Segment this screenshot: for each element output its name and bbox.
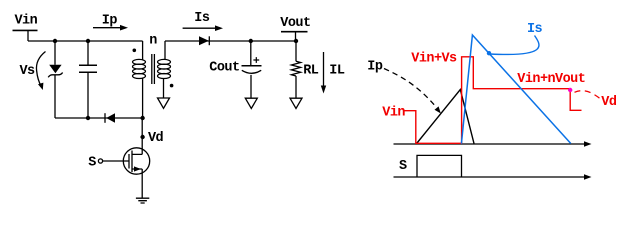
capacitor Cout curved plate bbox=[242, 70, 261, 73]
node Vd label bbox=[148, 131, 164, 146]
svg-text:Cout: Cout bbox=[209, 61, 239, 76]
transformer T1 secondary bottom stub bbox=[163, 79, 165, 99]
capacitor Cout bottom lead bbox=[250, 75, 252, 98]
label Vin+nVout red bbox=[517, 72, 585, 87]
ground Cout bbox=[245, 98, 257, 108]
resistor RL zigzag bbox=[291, 61, 300, 76]
capacitor C1 top lead bbox=[87, 41, 89, 65]
ground secondary bbox=[158, 98, 170, 108]
axis time lower bbox=[394, 176, 586, 178]
current arrow Is bbox=[183, 27, 216, 29]
transformer T1 primary bottom stub bbox=[142, 79, 144, 119]
svg-text:Is: Is bbox=[194, 11, 210, 26]
svg-text:Vin+nVout: Vin+nVout bbox=[517, 72, 585, 87]
transformer T1 primary phase dot bbox=[133, 49, 137, 53]
svg-text:IL: IL bbox=[329, 64, 345, 79]
label Vin red bbox=[382, 106, 405, 121]
transformer T1 core bbox=[152, 54, 155, 84]
ground earth under Q1 bbox=[136, 198, 149, 203]
resistor label RL bbox=[303, 64, 319, 79]
wire Vin lead bbox=[27, 30, 29, 41]
svg-text:Vd: Vd bbox=[148, 131, 164, 146]
label Vin+Vs red bbox=[411, 51, 457, 66]
current arrow IL bbox=[323, 52, 325, 86]
transformer T1 secondary top stub bbox=[164, 41, 166, 60]
resistor RL bottom lead bbox=[295, 76, 297, 98]
svg-text:S: S bbox=[399, 159, 407, 174]
wire zener branch top bbox=[54, 41, 56, 65]
svg-text:Ip: Ip bbox=[102, 14, 118, 29]
axis time upper bbox=[394, 143, 586, 145]
current label Is bbox=[194, 11, 210, 26]
trace Is blue bbox=[461, 35, 570, 144]
voltage label Vs bbox=[20, 64, 36, 79]
node Vd dot bbox=[140, 135, 144, 139]
svg-text:Vin: Vin bbox=[15, 14, 38, 29]
svg-text:Vd: Vd bbox=[601, 95, 617, 110]
diode D1 cathode bar bbox=[208, 36, 210, 45]
node junction drain bottom wire bbox=[140, 116, 144, 120]
transformer T1 secondary phase dot bbox=[170, 84, 174, 88]
transistor Q1 drain lead bbox=[132, 118, 142, 154]
node junction top-left branch bbox=[53, 39, 57, 43]
svg-text:Vs: Vs bbox=[20, 64, 36, 79]
transistor Q1 gate bar bbox=[128, 154, 130, 169]
wire zener branch bottom bbox=[54, 75, 56, 118]
svg-text:Is: Is bbox=[527, 22, 543, 37]
waveform plot bbox=[367, 22, 617, 180]
trace Vd red bbox=[405, 57, 582, 144]
ground RL bbox=[290, 98, 302, 108]
transistor Q1 source lead bbox=[132, 169, 142, 198]
wire top rail right bbox=[165, 40, 296, 42]
svg-text:Ip: Ip bbox=[367, 60, 383, 75]
diode D2 cathode bar bbox=[104, 113, 106, 123]
svg-text:Vin+Vs: Vin+Vs bbox=[411, 51, 457, 66]
svg-text:Vout: Vout bbox=[280, 16, 310, 31]
current label IL bbox=[329, 64, 345, 79]
current label Ip bbox=[102, 14, 118, 29]
capacitor C1 top plate bbox=[79, 64, 97, 66]
label Vd red bbox=[601, 95, 617, 110]
capacitor Cout top plate bbox=[242, 65, 262, 67]
leader Vd dashed red bbox=[575, 91, 601, 99]
capacitor C1 bottom plate bbox=[79, 71, 97, 73]
svg-text:n: n bbox=[149, 33, 157, 48]
capacitor Cout top lead bbox=[250, 41, 252, 65]
transistor Q1 channel bar bbox=[131, 151, 133, 173]
diode D2 triangle bbox=[106, 113, 115, 122]
label S bbox=[399, 159, 407, 174]
node S gate terminal circle bbox=[98, 159, 102, 163]
node Vin terminal label bbox=[15, 14, 38, 29]
node Vout terminal label bbox=[280, 16, 310, 31]
node dot magenta on Vd step bbox=[568, 88, 572, 92]
node junction Cout branch bbox=[249, 39, 253, 43]
voltage arc arrow Vs bbox=[36, 52, 45, 87]
zener diode DZ cathode bar bbox=[48, 73, 62, 78]
label Is blue bbox=[527, 22, 543, 37]
trace Ip black ramp bbox=[417, 90, 474, 144]
transformer T1 turns ratio label n bbox=[149, 33, 157, 48]
svg-text:Vin: Vin bbox=[382, 106, 405, 121]
capacitor C1 bottom lead bbox=[87, 73, 89, 118]
trace S gate pulse bbox=[417, 155, 462, 177]
svg-text:RL: RL bbox=[303, 64, 319, 79]
capacitor Cout label bbox=[209, 61, 239, 76]
node S gate label bbox=[88, 156, 96, 171]
node junction Vout branch bbox=[294, 39, 298, 43]
wire bottom rail bbox=[55, 117, 143, 119]
node Vout terminal bar bbox=[281, 31, 308, 33]
node Vin terminal bar bbox=[13, 29, 38, 31]
transistor Q1 gate wire bbox=[103, 160, 129, 162]
transformer T1 secondary winding bbox=[158, 59, 171, 78]
transformer T1 primary winding bbox=[133, 59, 146, 78]
svg-text:S: S bbox=[88, 156, 96, 171]
node junction bottom cap branch bbox=[86, 116, 90, 120]
transistor Q1 source arrow bbox=[134, 166, 141, 171]
node junction top cap branch bbox=[86, 39, 90, 43]
capacitor Cout polarity plus bbox=[253, 57, 259, 63]
resistor RL top lead bbox=[295, 41, 297, 61]
label Ip bbox=[367, 60, 383, 75]
current arrow Ip bbox=[93, 27, 121, 29]
wire top rail left bbox=[28, 40, 143, 42]
node dot blue on Is bbox=[487, 51, 491, 55]
diode D1 triangle bbox=[199, 36, 209, 45]
wire Vout lead bbox=[295, 32, 297, 41]
leader Is blue bbox=[490, 36, 539, 55]
transistor Q1 body circle bbox=[123, 148, 149, 174]
leader Ip dashed bbox=[384, 69, 437, 108]
zener diode DZ triangle bbox=[49, 65, 61, 74]
transformer T1 primary top stub bbox=[142, 41, 144, 60]
